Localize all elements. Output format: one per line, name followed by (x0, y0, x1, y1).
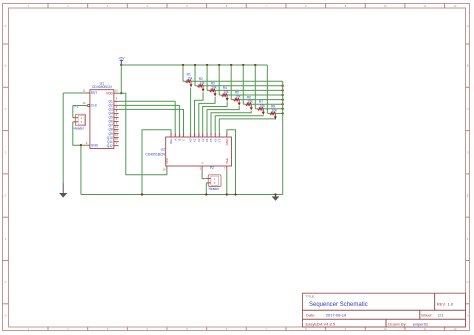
svg-text:TITLE:: TITLE: (306, 295, 315, 299)
wire LED4 to U2 X3 (203, 101, 227, 132)
pin 10 CLK of U1 (83, 102, 98, 108)
wire drop to R3 (206, 65, 208, 90)
pin 2 of P1 (73, 121, 78, 123)
svg-text:Q12: Q12 (107, 144, 113, 148)
LED D7 (262, 109, 265, 115)
svg-text:10k: 10k (272, 109, 278, 113)
svg-text:E: E (5, 194, 7, 198)
LED D4 (226, 95, 229, 101)
wire U2 VEE to rail (226, 171, 228, 195)
junction right bus row 2 (282, 85, 284, 87)
svg-text:1.0: 1.0 (448, 301, 454, 306)
wire U1 Q3 to U2 C (119, 109, 184, 132)
svg-text:D: D (5, 150, 7, 154)
svg-text:A: A (467, 24, 469, 28)
junction bus drop 1 (182, 64, 184, 66)
header P2 (208, 166, 221, 191)
LED D6 (250, 104, 253, 110)
pin 12 X3 of U2 (201, 133, 205, 143)
pin 1 of P2 (205, 178, 211, 180)
wire LED1 to U2 X0 (190, 88, 192, 133)
wire U1 Q2 to U2 B (119, 105, 180, 132)
resistor R3 10k (207, 82, 217, 92)
svg-text:D: D (467, 150, 469, 154)
wire +5V to U1 VDD (120, 65, 122, 93)
junction U1 GND node (80, 144, 82, 146)
pin 9 C of U2 (182, 133, 186, 141)
svg-text:10k: 10k (223, 90, 229, 94)
pin 1 of P1 (73, 117, 78, 119)
svg-text:B: B (5, 64, 7, 68)
junction right bus row 7 (282, 108, 284, 110)
svg-text:1/1: 1/1 (438, 313, 444, 318)
resistor R8 10k (267, 105, 277, 115)
pin 4 Q7 of U1 (109, 122, 119, 128)
wire U1 CLK to P1 pin1 (73, 106, 88, 118)
LED D3 (214, 90, 217, 96)
LED D5 (238, 100, 241, 106)
junction bus drop 3 (206, 64, 208, 66)
pin 13 X0 of U2 (189, 133, 193, 143)
svg-text:Drawn By:: Drawn By: (388, 321, 406, 326)
svg-text:CD4040BCN: CD4040BCN (92, 85, 112, 89)
wire +5V bus horizontal (121, 64, 267, 66)
svg-text:10k: 10k (236, 95, 242, 99)
wire LED6 to U2 X5 (211, 111, 251, 133)
pin 6 Q3 of U1 (109, 106, 119, 112)
wire U2 INH to ground rail (142, 130, 171, 195)
svg-text:E: E (467, 194, 469, 198)
pin 16 VDD of U1 (106, 90, 119, 96)
svg-text:CD4051BCN: CD4051BCN (145, 153, 165, 157)
resistor R7 10k (255, 100, 265, 110)
wire U1 Q1 to U2 A (119, 101, 176, 133)
svg-text:X: X (200, 162, 204, 164)
wire R4 to right bus (227, 94, 283, 96)
svg-text:X7: X7 (218, 138, 222, 142)
svg-text:GND: GND (225, 138, 229, 146)
header P1 (74, 105, 86, 131)
LED D1 (190, 81, 193, 87)
resistor R4 10k (219, 86, 229, 96)
svg-text:REV:: REV: (437, 301, 446, 306)
resistor R2 10k (195, 77, 205, 87)
svg-text:RST: RST (91, 91, 97, 95)
svg-text:10k: 10k (187, 76, 193, 80)
svg-text:C: C (467, 107, 469, 111)
wire R6 to right bus (251, 103, 282, 105)
pin 14 Q10 of U1 (107, 134, 119, 140)
svg-text:VCC: VCC (165, 157, 169, 164)
power flag +5V (118, 57, 125, 65)
junction U2 GND rail (234, 193, 236, 195)
pin 5 X5 of U2 (209, 133, 213, 143)
wire drop to R5 (230, 65, 232, 100)
resistor R5 10k (231, 91, 241, 101)
wire right bus vertical (282, 81, 284, 194)
svg-text:P2: P2 (210, 166, 214, 170)
wire bottom ground rail (81, 194, 283, 196)
svg-text:VEE: VEE (225, 158, 229, 164)
svg-text:VDD: VDD (106, 91, 113, 95)
wire R1 to right bus (191, 80, 283, 82)
svg-text:eviper01: eviper01 (413, 321, 429, 326)
wire GND node to bottom rail (80, 145, 82, 194)
junction at +5V node (120, 64, 122, 66)
pin 1 X4 of U2 (205, 133, 209, 143)
ic U1 CD4040BCN (90, 81, 114, 148)
junction right bus row 6 (282, 103, 284, 105)
svg-text:GND: GND (91, 143, 99, 147)
wire LED8 to U2 X7 (219, 119, 275, 133)
junction right bus row 4 (282, 94, 284, 96)
wire drop to R1 (182, 65, 184, 81)
wire R2 to right bus (203, 85, 283, 87)
svg-text:2017-08-19: 2017-08-19 (326, 313, 347, 318)
junction P2 rail (205, 193, 207, 195)
svg-text:Sequencer Schematic: Sequencer Schematic (309, 302, 368, 308)
svg-text:EasyEDA V4.8.5: EasyEDA V4.8.5 (306, 321, 336, 326)
svg-text:10k: 10k (211, 86, 217, 90)
junction bus drop 5 (230, 64, 232, 66)
junction right bus row 8 (282, 112, 284, 114)
wire drop to R7 (254, 65, 256, 109)
junction bus drop 2 (194, 64, 196, 66)
svg-text:H: H (467, 313, 469, 317)
wire drop to R4 (218, 65, 220, 95)
junction bus drop 6 (242, 64, 244, 66)
junction right bus row 3 (282, 89, 284, 91)
pin 5 Q4 of U1 (109, 110, 119, 116)
wire R3 to right bus (215, 89, 283, 91)
resistor R6 10k (243, 95, 253, 105)
ground symbol left (59, 183, 67, 198)
wire P2 pin2 to rail (205, 183, 207, 195)
pin 4 X7 of U2 (218, 133, 222, 143)
wire drop to R6 (242, 65, 244, 104)
svg-text:10k: 10k (260, 104, 266, 108)
svg-text:H: H (5, 313, 7, 317)
pin 1 Q12 of U1 (107, 142, 119, 148)
title block (303, 293, 466, 327)
svg-text:Header: Header (74, 127, 85, 131)
svg-text:CLK: CLK (91, 104, 98, 108)
wire drop to R2 (194, 65, 196, 86)
wire U1 RST to ground net (63, 93, 85, 183)
ic U2 CD4051BCN (145, 137, 231, 166)
svg-text:Sheet:: Sheet: (421, 313, 433, 318)
pin 2 of P2 (206, 182, 211, 184)
svg-text:Date:: Date: (306, 313, 316, 318)
pin 11 A of U2 (173, 133, 177, 141)
pin 13 Q8 of U1 (109, 126, 119, 132)
pin 6 INH of U2 (169, 133, 173, 144)
wire VDD to U2 VCC feed (119, 93, 167, 175)
wire U2 GND pin to rail (227, 130, 236, 195)
svg-text:A: A (5, 24, 7, 28)
pin 3 X of U2 (200, 162, 205, 171)
pin 12 Q9 of U1 (109, 130, 119, 136)
svg-text:10k: 10k (248, 99, 254, 103)
pin 8 GND of U2 (225, 133, 229, 146)
pin 9 Q1 of U1 (109, 98, 119, 104)
pin 11 RST of U1 (83, 90, 98, 96)
pin 14 X1 of U2 (193, 133, 197, 143)
wire P1 pin2 to GND net (73, 122, 85, 145)
LED D2 (202, 86, 205, 92)
wire LED2 to U2 X1 (195, 92, 204, 133)
pin 7 VEE of U2 (224, 158, 229, 171)
junction VEE rail (226, 193, 228, 195)
pin 8 GND of U1 (85, 142, 98, 148)
pin 16 VCC of U2 (163, 157, 169, 172)
pin 7 Q2 of U1 (109, 102, 119, 108)
wire R8 to right bus (275, 112, 282, 114)
pin 2 X6 of U2 (213, 133, 217, 143)
junction INH rail (141, 193, 143, 195)
svg-text:B: B (467, 64, 469, 68)
resistor R1 10k (183, 72, 193, 82)
junction right bus row 5 (282, 98, 284, 100)
wire LED3 to U2 X2 (199, 97, 215, 133)
junction at U1 VDD (120, 92, 122, 94)
junction right ground (274, 193, 276, 195)
svg-text:Header: Header (209, 187, 220, 191)
wire R5 to right bus (239, 99, 283, 101)
junction bus drop 4 (218, 64, 220, 66)
pin 2 Q6 of U1 (109, 118, 119, 124)
wire LED7 to U2 X6 (215, 115, 263, 133)
svg-text:10k: 10k (199, 81, 205, 85)
svg-text:U2: U2 (161, 147, 165, 151)
ground symbol right (272, 195, 280, 201)
junction bus drop 7 (254, 64, 256, 66)
svg-text:G: G (4, 280, 6, 284)
pin 15 X2 of U2 (197, 133, 201, 143)
wire U2 X to P2 pin1 (202, 171, 205, 179)
pin 10 B of U2 (178, 133, 182, 141)
wire drop to R8 (266, 65, 268, 113)
pin 15 Q11 of U1 (107, 138, 119, 144)
svg-text:C: C (5, 107, 7, 111)
LED D8 (274, 113, 277, 119)
wire R7 to right bus (263, 108, 282, 110)
svg-text:G: G (467, 280, 469, 284)
pin 3 Q5 of U1 (109, 114, 119, 120)
wire LED5 to U2 X4 (207, 106, 239, 133)
